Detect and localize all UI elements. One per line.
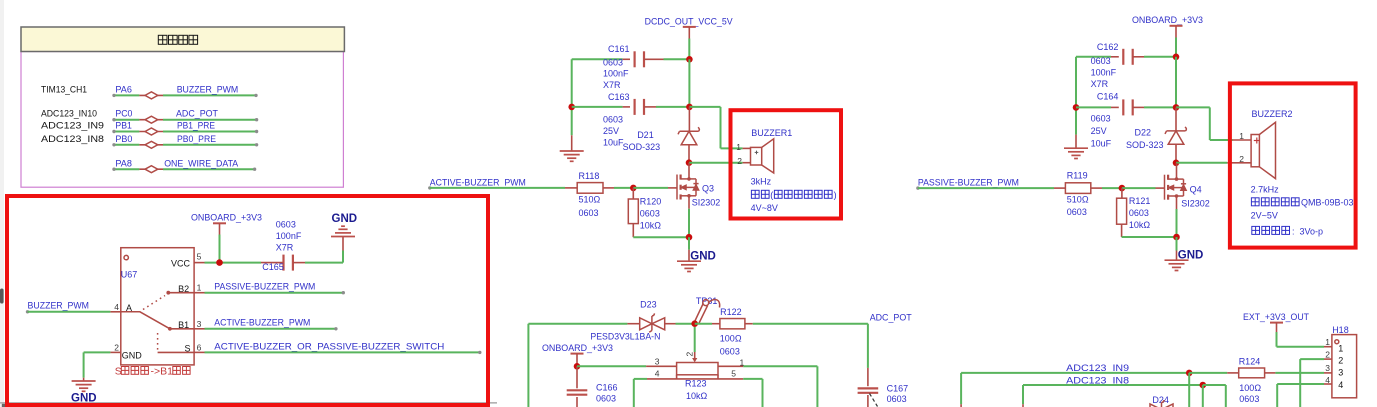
svg-text:0603: 0603: [640, 209, 660, 219]
svg-text:100nF: 100nF: [1091, 68, 1117, 78]
svg-text:SOD-323: SOD-323: [623, 142, 661, 152]
BUZZER1 note 有源(内含驱动线路): [751, 190, 769, 198]
wire U67 VCC rail: [205, 262, 262, 264]
ground (C165, inverted): [331, 226, 355, 236]
svg-text:C161: C161: [608, 44, 630, 54]
junction Q4 source/R121: [1173, 234, 1180, 241]
svg-text:510Ω: 510Ω: [1067, 195, 1089, 205]
capacitor C161: [635, 51, 644, 67]
scrollbar thumb: [0, 289, 4, 304]
junction C164/D22: [1173, 104, 1180, 111]
svg-text:PC0: PC0: [115, 109, 132, 119]
svg-text:R119: R119: [1067, 171, 1088, 181]
wire Q3 source down: [688, 209, 690, 238]
svg-text:D24: D24: [1152, 395, 1169, 405]
svg-text:1: 1: [197, 283, 202, 293]
svg-text:0603: 0603: [603, 58, 623, 68]
svg-text:PASSIVE-BUZZER_PWM: PASSIVE-BUZZER_PWM: [918, 178, 1019, 188]
svg-text:100Ω: 100Ω: [720, 334, 742, 344]
svg-text:3: 3: [1325, 363, 1330, 373]
wire U67 pin2 to GND: [84, 351, 111, 353]
resistor R118: [565, 187, 577, 189]
capacitor C164: [1123, 99, 1132, 115]
junction C162/3V3 rail: [1173, 54, 1180, 61]
svg-text:ADC_POT: ADC_POT: [870, 313, 912, 323]
wire to BUZZER1 pin2: [689, 162, 743, 164]
resistor R122: [695, 323, 712, 325]
wire to Q3 gate: [633, 187, 668, 189]
svg-text:D21: D21: [637, 130, 654, 140]
svg-text:ADC123_IN9: ADC123_IN9: [41, 121, 104, 131]
svg-text:U67: U67: [121, 270, 138, 280]
wire C163 row: [571, 59, 573, 135]
resistor R124: [1227, 372, 1239, 374]
svg-text:ADC123_IN8: ADC123_IN8: [41, 134, 104, 144]
red annotation box BUZZER2: [1230, 83, 1356, 247]
wire Q4 source down: [1176, 209, 1178, 237]
U67 switch contact dots: [166, 291, 170, 295]
capacitor C167: [858, 388, 879, 392]
svg-text:R123: R123: [685, 379, 707, 389]
junction ONBOARD_+3V3/C166/pot3: [574, 363, 581, 370]
pot pins 4/5 bottom leads: [647, 378, 743, 380]
test point TP31 symbol: [694, 300, 719, 324]
svg-text:BUZZER_PWM: BUZZER_PWM: [28, 301, 90, 311]
svg-text:3kHz: 3kHz: [751, 177, 772, 187]
connector H18 body: [1332, 335, 1357, 398]
svg-text:0603: 0603: [887, 394, 907, 404]
svg-text:C162: C162: [1097, 42, 1119, 52]
BUZZER2 note 无源蜂鸣器QMB-09B-03: [1251, 198, 1299, 206]
wire to BUZZER2 pin2: [1176, 162, 1227, 164]
svg-text:PB1: PB1: [115, 121, 131, 131]
port row PA6 -> BUZZER_PWM: [114, 94, 139, 96]
svg-text:25V: 25V: [1091, 126, 1107, 136]
diode D22: [1175, 107, 1177, 130]
svg-text:ONBOARD_+3V3: ONBOARD_+3V3: [191, 213, 262, 223]
svg-text:PASSIVE-BUZZER_PWM: PASSIVE-BUZZER_PWM: [214, 282, 315, 292]
capacitor C166: [576, 366, 578, 388]
svg-text:ADC123_IN10: ADC123_IN10: [41, 109, 97, 119]
port row PC0 -> ADC_POT: [114, 119, 139, 121]
junction C163/D21: [686, 104, 693, 111]
svg-text:100nF: 100nF: [603, 69, 629, 79]
red annotation box BUZZER1: [731, 110, 842, 218]
svg-text:2V~5V: 2V~5V: [1251, 210, 1278, 220]
svg-text:510Ω: 510Ω: [579, 195, 601, 205]
junction VCC/ONBOARD_+3V3: [216, 259, 223, 266]
svg-text:C167: C167: [887, 384, 909, 394]
svg-text:3: 3: [1338, 368, 1343, 378]
svg-text:0603: 0603: [720, 347, 740, 357]
svg-text:PA6: PA6: [115, 84, 131, 94]
capacitor C165: [261, 262, 284, 264]
svg-text:R124: R124: [1239, 356, 1261, 366]
wire R120 to source: [633, 236, 689, 238]
svg-text:SI2302: SI2302: [692, 198, 721, 208]
table title 引脚分配: [158, 35, 197, 44]
svg-text:GND: GND: [122, 351, 143, 361]
wire to ADC_POT: [753, 323, 868, 325]
svg-text:Q3: Q3: [702, 184, 714, 194]
svg-text:VCC: VCC: [171, 258, 191, 268]
H18 polarity circle: [1335, 340, 1339, 344]
svg-text:ADC123_IN9: ADC123_IN9: [1066, 363, 1129, 373]
svg-text:SOD-323: SOD-323: [1126, 140, 1164, 150]
diode D21: [688, 107, 690, 131]
junction ADC123_IN8: [1200, 382, 1207, 389]
svg-text:BUZZER1: BUZZER1: [751, 128, 792, 138]
resistor R121: [1121, 188, 1123, 198]
svg-text:PESD3V3L1BA-N: PESD3V3L1BA-N: [590, 332, 660, 342]
svg-text:0603: 0603: [1129, 208, 1149, 218]
wire C164 row: [1075, 57, 1077, 135]
wire pot pin 1: [718, 365, 743, 367]
ground U67 pin2: [72, 381, 96, 391]
svg-text:0603: 0603: [579, 208, 599, 218]
transistor Q4 (SI2302): [1165, 175, 1187, 200]
H18 pin 2 stub: [1324, 358, 1332, 360]
svg-text:0603: 0603: [596, 394, 616, 404]
buzzer BUZZER1 speaker symbol: [751, 139, 774, 173]
svg-text:0603: 0603: [276, 219, 296, 229]
svg-text:4: 4: [1338, 380, 1343, 390]
svg-text:0603: 0603: [603, 115, 623, 125]
svg-text:Q4: Q4: [1190, 185, 1202, 195]
wire to Q4 gate: [1122, 187, 1156, 189]
svg-text:2: 2: [1239, 154, 1244, 164]
capacitor C163: [635, 99, 644, 115]
junction R118/R120/gate: [630, 185, 637, 192]
svg-text:D23: D23: [640, 299, 657, 309]
svg-text:BUZZER2: BUZZER2: [1252, 109, 1293, 119]
svg-text:0603: 0603: [1067, 207, 1087, 217]
svg-text:0603: 0603: [1091, 56, 1111, 66]
port row PB1 -> PB1_PRE: [114, 131, 139, 133]
svg-text:ADC123_IN8: ADC123_IN8: [1066, 375, 1129, 385]
svg-text:S: S: [115, 366, 122, 378]
svg-text:PB1_PRE: PB1_PRE: [177, 121, 215, 131]
svg-text:ACTIVE-BUZZER_OR_PASSIVE-BUZZE: ACTIVE-BUZZER_OR_PASSIVE-BUZZER_SWITCH: [214, 341, 444, 351]
svg-text:ONBOARD_+3V3: ONBOARD_+3V3: [542, 343, 613, 353]
svg-text:X7R: X7R: [276, 242, 294, 252]
U67 internal pin lines: [168, 292, 194, 294]
svg-text:X7R: X7R: [1091, 79, 1109, 89]
svg-text:0603: 0603: [1239, 394, 1259, 404]
H18 pin 1 stub: [1324, 346, 1332, 348]
svg-text:C163: C163: [608, 92, 630, 102]
capacitor C162: [1123, 49, 1132, 65]
svg-text:4: 4: [1325, 375, 1330, 385]
wire H18 pin 2: [1299, 359, 1301, 407]
ground (C162/C164 left): [1075, 135, 1077, 149]
wire ADC_POT left loop: [528, 323, 627, 325]
svg-text:2: 2: [685, 352, 695, 357]
svg-text:10uF: 10uF: [1091, 139, 1112, 149]
U67 pin 5 stub: [194, 262, 204, 264]
wiper wire (pin 2): [694, 327, 696, 352]
U67 pin 1 stub: [194, 292, 204, 294]
svg-text:C165: C165: [262, 262, 284, 272]
svg-text:5: 5: [731, 368, 736, 378]
svg-text:H18: H18: [1332, 325, 1349, 335]
svg-text:1: 1: [736, 142, 741, 152]
svg-text:100nF: 100nF: [276, 231, 302, 241]
port row PB0 -> PB0_PRE: [114, 144, 139, 146]
wire 5V vertical: [688, 59, 690, 107]
sheet border line: [0, 402, 497, 404]
junction C164 left: [1073, 104, 1080, 111]
svg-text:ADC_POT: ADC_POT: [176, 109, 218, 119]
junction ADC123_IN9: [1186, 370, 1193, 377]
svg-text:10uF: 10uF: [603, 138, 624, 148]
wire 3V3 vertical: [1175, 57, 1177, 108]
buzzer BUZZER2 speaker symbol: [1251, 122, 1275, 178]
svg-text:4: 4: [655, 369, 660, 379]
U67 pin 2 stub: [110, 351, 120, 353]
svg-text:3: 3: [197, 319, 202, 329]
svg-text:DCDC_OUT_VCC_5V: DCDC_OUT_VCC_5V: [645, 16, 733, 26]
svg-text:4: 4: [114, 302, 119, 312]
svg-text:1: 1: [1338, 344, 1343, 354]
svg-text:SI2302: SI2302: [1181, 199, 1210, 209]
svg-text:GND: GND: [690, 251, 716, 263]
svg-text:GND: GND: [71, 392, 97, 404]
ground (Q4): [1176, 237, 1178, 251]
U67 dotted throw to B2: [143, 296, 165, 310]
transistor Q3 (SI2302): [677, 175, 699, 200]
table 引脚分配 body: [21, 52, 343, 188]
red annotation box (U67 circuit): [7, 196, 488, 405]
svg-text:C164: C164: [1097, 92, 1119, 102]
svg-text:6: 6: [197, 343, 202, 353]
svg-text:1: 1: [740, 357, 745, 367]
U67 pin 3 stub: [194, 328, 204, 330]
svg-text:ONBOARD_+3V3: ONBOARD_+3V3: [1132, 15, 1203, 25]
svg-text:QMB-09B-03: QMB-09B-03: [1301, 198, 1354, 208]
potentiometer R123 body: [677, 363, 718, 375]
svg-text:3: 3: [655, 356, 660, 366]
wire C161 row: [572, 58, 623, 60]
svg-text:ONE_WIRE_DATA: ONE_WIRE_DATA: [164, 158, 238, 168]
svg-text:EXT_+3V3_OUT: EXT_+3V3_OUT: [1243, 312, 1309, 322]
ground (Q3): [688, 237, 690, 250]
scrollbar strip: [0, 0, 4, 407]
svg-text:R118: R118: [579, 171, 600, 181]
svg-text:10kΩ: 10kΩ: [1129, 220, 1151, 230]
op-amp/analog-switch U67 body: [121, 248, 194, 365]
BUZZER2 note 额定电压: 3Vo-p: [1252, 226, 1290, 234]
svg-text:2.7kHz: 2.7kHz: [1251, 185, 1280, 195]
svg-text:10kΩ: 10kΩ: [640, 221, 662, 231]
wire C162 row: [1076, 56, 1111, 58]
U67 dotted select line to S: [157, 333, 159, 352]
svg-text:1: 1: [1325, 337, 1330, 347]
svg-text:100Ω: 100Ω: [1239, 383, 1261, 393]
svg-text:->B1: ->B1: [151, 366, 174, 378]
resistor R119: [1054, 187, 1065, 189]
svg-text:TIM13_CH1: TIM13_CH1: [41, 84, 87, 94]
U67 pin 6 stub: [194, 351, 204, 353]
H18 pin 4 stub: [1324, 383, 1332, 385]
svg-text:R121: R121: [1129, 196, 1151, 206]
svg-text:X7R: X7R: [603, 80, 621, 90]
junction R119/R121/gate: [1119, 185, 1126, 192]
svg-text:10kΩ: 10kΩ: [686, 391, 708, 401]
port row PA8 -> ONE_WIRE_DATA: [114, 168, 139, 170]
svg-text:BUZZER_PWM: BUZZER_PWM: [177, 84, 239, 94]
U67 pin 4 stub: [110, 311, 120, 313]
svg-text:GND: GND: [332, 213, 358, 225]
svg-text:2: 2: [1325, 349, 1330, 359]
wire ADC_POT down to C167: [867, 324, 869, 368]
TVS diode D23: [627, 323, 639, 325]
svg-text:GND: GND: [1178, 249, 1204, 261]
svg-text:ACTIVE-BUZZER_PWM: ACTIVE-BUZZER_PWM: [430, 178, 526, 188]
svg-text:2: 2: [1338, 355, 1343, 365]
svg-text:25V: 25V: [603, 126, 619, 136]
wire R121 to source: [1122, 236, 1177, 238]
svg-text:C166: C166: [596, 383, 618, 393]
svg-text:TP31: TP31: [696, 296, 718, 306]
wire pot pin 3: [577, 365, 646, 367]
junction D23/TP31/R122/wiper: [691, 320, 698, 327]
junction D21/Q3/BUZZER1: [686, 159, 693, 166]
U67 switch arm A->B1: [121, 312, 170, 329]
svg-text:R120: R120: [640, 196, 662, 206]
svg-text:: 3Vo-p: : 3Vo-p: [1292, 226, 1323, 236]
svg-text:2: 2: [737, 156, 742, 166]
svg-text:1: 1: [1239, 131, 1244, 141]
svg-text:2: 2: [114, 343, 119, 353]
svg-text:R122: R122: [720, 307, 742, 317]
svg-text:ACTIVE-BUZZER_PWM: ACTIVE-BUZZER_PWM: [214, 318, 310, 328]
svg-text:PB0: PB0: [115, 134, 132, 144]
ground (C161/C163 left): [571, 135, 573, 151]
junction D22/Q4/BUZZER2: [1173, 160, 1180, 167]
svg-text:PB0_PRE: PB0_PRE: [177, 134, 216, 144]
svg-text:): ): [834, 190, 837, 200]
wire H18 pin 4: [1276, 384, 1278, 407]
svg-text:0603: 0603: [1091, 114, 1111, 124]
svg-text:PA8: PA8: [115, 158, 131, 168]
wire to BUZZER2 pin1: [1176, 106, 1210, 108]
junction C163 left: [568, 104, 575, 111]
svg-text:5: 5: [197, 252, 202, 262]
junction Q3 source/R120: [686, 234, 693, 241]
svg-text:D22: D22: [1135, 127, 1152, 137]
svg-text:4V~8V: 4V~8V: [751, 203, 778, 213]
wire to BUZZER1 pin1: [689, 106, 720, 108]
U67 polarity circle: [124, 255, 128, 259]
table header: [21, 27, 344, 52]
svg-text:(: (: [770, 190, 773, 200]
resistor R120: [632, 188, 634, 199]
junction C161/5V rail: [686, 56, 693, 63]
dashed annotation at C167: [870, 394, 878, 407]
